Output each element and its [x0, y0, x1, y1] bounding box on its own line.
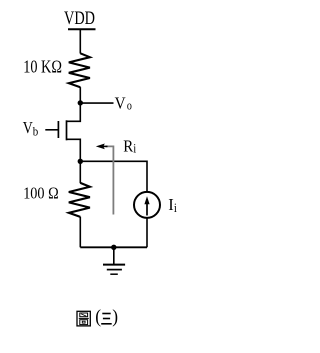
svg-text:R: R [123, 136, 134, 155]
svg-text:(: ( [95, 307, 101, 328]
label Ii [168, 195, 177, 215]
svg-text:100 Ω: 100 Ω [23, 183, 59, 202]
ground junction dot [111, 245, 116, 250]
svg-text:o: o [127, 98, 132, 113]
resistor R2 [69, 183, 90, 217]
power rail bar VDD [68, 28, 96, 30]
node Vo junction dot [78, 100, 83, 105]
resistor R1 [69, 53, 90, 87]
wire current source I1 to ground rail [146, 218, 148, 247]
caption character 圖 [77, 311, 90, 326]
label Vb [23, 118, 39, 139]
label Vo [115, 93, 132, 112]
wire node Vo to label Vo [80, 102, 113, 104]
svg-text:i: i [133, 140, 136, 155]
svg-text:b: b [33, 124, 39, 139]
ground rail bottom wire [80, 246, 147, 248]
wire VDD bar to resistor R1 [79, 29, 81, 53]
svg-text:VDD: VDD [64, 9, 95, 29]
input resistance indicator line Ri (gray) [106, 146, 113, 214]
label Ri [123, 136, 136, 155]
svg-text:V: V [23, 118, 34, 137]
wire source node to resistor R2 [79, 161, 81, 183]
current source I1 arrow [144, 196, 149, 215]
transistor Q1 gate bar [57, 121, 59, 138]
caption text (三) [95, 307, 118, 328]
svg-text:): ) [112, 307, 118, 328]
wire drain of Q1 [67, 103, 81, 121]
transistor Q1 channel bar [66, 120, 68, 140]
svg-text:i: i [174, 200, 177, 215]
input resistance arrow Ri [96, 144, 108, 150]
wire source node to right branch [80, 161, 147, 191]
svg-text:10 KΩ: 10 KΩ [23, 57, 62, 77]
ground symbol [103, 265, 125, 275]
node source junction dot [78, 159, 83, 164]
wire R1 to node Vo [79, 87, 81, 103]
wire gate lead Vb [45, 129, 58, 131]
svg-text:V: V [115, 93, 127, 112]
wire R2 to ground rail [79, 217, 81, 248]
transistor Q1 source lead [67, 139, 81, 161]
current source I1 circle [134, 192, 160, 218]
ground stem wire [113, 247, 115, 264]
